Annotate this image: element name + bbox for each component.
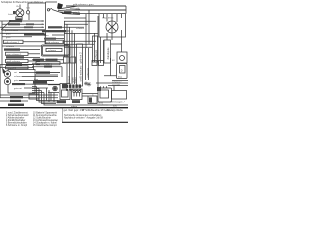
label blau bar	[12, 83, 25, 85]
star symbol 2	[84, 82, 88, 86]
title block rule right	[62, 121, 128, 123]
pilot lamp	[26, 11, 29, 14]
svg-text:Nachdruck verboten · Ausgabe J: Nachdruck verboten · Ausgabe Juli 58	[64, 117, 104, 120]
lamp socket box	[16, 17, 22, 20]
label schwarz mid 2	[24, 26, 33, 28]
connector blob blau	[62, 84, 67, 88]
terminal eyelets	[66, 89, 68, 91]
wire	[66, 5, 126, 7]
wire diagonal	[1, 21, 11, 31]
bulbs in cluster	[73, 90, 75, 92]
wire	[32, 59, 64, 61]
left bus vertical	[1, 21, 3, 67]
label schwarz-weiss bar	[6, 56, 24, 58]
coil box B	[104, 40, 111, 63]
wire	[25, 83, 48, 85]
wire	[32, 62, 66, 64]
svg-text:grün-schwarz: grün-schwarz	[5, 29, 18, 32]
wire lamp to bus	[18, 16, 21, 21]
svg-text:schwarz: schwarz	[48, 49, 56, 52]
wire	[19, 71, 60, 73]
label weiss bar	[57, 100, 66, 103]
wire	[32, 81, 60, 85]
wire	[22, 75, 58, 77]
legend column 1	[6, 112, 29, 128]
rectifier D inner	[120, 66, 126, 74]
label gelb-schwarz bar	[46, 59, 58, 61]
star symbol	[87, 82, 91, 86]
crossing bus wires	[64, 33, 98, 47]
svg-text:rot: rot	[14, 71, 17, 74]
svg-text:Schaltplan für Beleuchtung am: Schaltplan für Beleuchtung am Rahmen	[1, 1, 44, 4]
svg-text:Licht: Licht	[8, 13, 13, 16]
svg-text:grau: grau	[6, 32, 11, 35]
wire fan to headlamp labels	[58, 6, 80, 15]
legend column 2	[33, 112, 58, 128]
label braun	[8, 63, 20, 65]
wire	[0, 65, 34, 70]
wire	[2, 29, 44, 31]
box4 top pins	[101, 86, 115, 91]
right verticals	[95, 16, 104, 88]
label rot	[44, 66, 52, 68]
label schwarz	[48, 26, 62, 28]
svg-text:schwarz /: schwarz /	[112, 81, 122, 84]
wire	[2, 45, 40, 47]
wire	[0, 26, 44, 28]
vertical drops from headlamp labels	[86, 10, 89, 48]
terminal box T1	[64, 57, 70, 63]
label blau bar 1	[10, 96, 23, 98]
svg-text:2↑: 2↑	[92, 94, 94, 97]
headlamp housing	[99, 14, 126, 37]
horn mount eyelet	[47, 9, 49, 11]
boxed label weiss-schwarz	[6, 59, 29, 62]
flywheel wedge	[2, 68, 7, 74]
svg-text:D: D	[121, 70, 123, 73]
switch symbol in C	[120, 56, 125, 61]
wire below headlamp	[107, 33, 112, 40]
boxed label weiss-schwarz 1	[36, 62, 60, 65]
wire	[2, 36, 32, 38]
svg-text:weiß-schwarz 1: weiß-schwarz 1	[37, 62, 53, 65]
wire	[0, 97, 58, 99]
wire	[82, 94, 98, 97]
tail lamp L1	[16, 5, 24, 17]
label schwarz 2	[8, 23, 20, 25]
upper bus wires	[64, 18, 96, 27]
svg-text:blau: blau	[75, 77, 78, 82]
wire	[35, 72, 60, 75]
sidecar box	[112, 91, 127, 100]
title block separator	[62, 108, 64, 123]
terminal box T4	[99, 61, 104, 66]
label schwarz	[9, 20, 22, 22]
headlamp bulb	[106, 21, 118, 33]
svg-text:gelb-rot 3: gelb-rot 3	[80, 52, 83, 64]
boxed label rot-weiss	[6, 66, 29, 69]
svg-text:schwarz: schwarz	[14, 75, 22, 78]
wire	[23, 41, 45, 43]
svg-text:rot-weiß: rot-weiß	[112, 83, 121, 86]
wire bus right	[96, 81, 128, 86]
vertical strip box A	[93, 36, 98, 62]
wire	[19, 79, 52, 81]
svg-text:grün-rot: grün-rot	[14, 87, 22, 90]
title block texts	[64, 109, 124, 119]
horn bracket	[49, 9, 64, 14]
label gelb-schwarz wide	[42, 30, 66, 32]
switch S1	[13, 11, 16, 14]
battery box	[60, 84, 70, 100]
svg-text:weiß-schwarz: weiß-schwarz	[7, 60, 20, 63]
svg-text:Zündspule: Zündspule	[107, 47, 110, 60]
relay label schwarz	[46, 48, 62, 51]
label gelb-schwarz bar	[4, 48, 20, 50]
connector blobs	[66, 85, 68, 88]
wire	[48, 85, 60, 102]
label schwarz mid 1	[26, 23, 34, 25]
wire	[2, 23, 44, 25]
arrowheads into junction	[42, 20, 44, 31]
label gruen bar	[64, 11, 72, 14]
boxed label gruen-schwarz	[6, 52, 29, 55]
regulator box4	[98, 88, 112, 102]
svg-text:Zündapp-Werke: Zündapp-Werke	[107, 109, 124, 112]
label blau bar 2	[10, 100, 21, 102]
svg-text:grün-schwarz 1: grün-schwarz 1	[7, 53, 23, 56]
label schnarre bar	[8, 104, 24, 106]
svg-text:6 Schnarre m. Knopf: 6 Schnarre m. Knopf	[6, 124, 27, 127]
label bar mid	[33, 81, 47, 84]
label gelb-schwarz bar	[24, 33, 46, 35]
wire	[73, 13, 100, 15]
wire from pilot lamp	[28, 3, 46, 11]
bulb symbol (asterisk lamp)	[53, 86, 58, 91]
terminal box T3	[92, 61, 97, 66]
svg-text:15 Unterbrecher kompl.: 15 Unterbrecher kompl.	[33, 124, 57, 127]
wire	[32, 67, 62, 77]
wire	[0, 20, 44, 22]
wire	[111, 30, 122, 52]
wire	[0, 94, 58, 96]
svg-text:grün: grün	[14, 79, 19, 82]
bottom rule full width	[0, 107, 128, 109]
wire	[0, 100, 28, 102]
junction box left edge	[45, 2, 47, 44]
left margin line	[0, 65, 2, 98]
boxed label at bottom left	[29, 94, 39, 99]
junction box top edge	[46, 1, 58, 3]
svg-text:schwarz: schwarz	[6, 45, 14, 48]
label rot bar	[33, 59, 44, 61]
svg-text:Technische Änderungen vorbehal: Technische Änderungen vorbehalten	[64, 114, 102, 117]
svg-text:gelb-schwarz 1: gelb-schwarz 1	[5, 41, 20, 44]
wire rows to box	[40, 27, 70, 46]
label bar	[6, 63, 22, 65]
wire	[24, 56, 40, 58]
wire	[66, 9, 126, 11]
wire	[0, 32, 44, 34]
svg-text:schwarz: schwarz	[87, 67, 90, 77]
rectifier D box	[117, 64, 128, 79]
horn	[57, 3, 63, 9]
svg-text:grün: grün	[6, 36, 11, 39]
svg-text:weiß-schwarz: weiß-schwarz	[80, 65, 83, 82]
sheath vertical line pair	[86, 48, 89, 80]
relay box	[42, 45, 71, 56]
connector blob 5	[79, 85, 81, 88]
wire to D	[104, 58, 117, 76]
terminal box T2	[70, 57, 76, 63]
generator box	[8, 70, 35, 94]
boxed label gelb-schwarz 1	[4, 40, 24, 43]
boxed label gelb-schwarz	[45, 40, 64, 43]
magneto rotor 2	[4, 78, 10, 84]
wire	[2, 32, 32, 34]
wire	[28, 60, 40, 62]
nested corner wires to bottom bus	[32, 87, 128, 106]
svg-text:grau: grau	[44, 34, 49, 37]
svg-text:gelb-schwarz u. grau: gelb-schwarz u. grau	[73, 3, 94, 6]
svg-text:rot-schwarz: rot-schwarz	[97, 104, 108, 107]
vertical bundle wires	[65, 21, 75, 84]
label gruen	[44, 38, 56, 40]
wire	[2, 29, 45, 31]
wire stub pilot	[28, 14, 30, 20]
headlamp inner side lines	[104, 6, 127, 18]
connector blob	[97, 87, 101, 91]
svg-text:gelb-schwarz: gelb-schwarz	[46, 41, 59, 44]
switch box C	[117, 52, 127, 63]
label grau	[36, 71, 50, 73]
svg-text:Seitenwagen ↗: Seitenwagen ↗	[110, 101, 125, 104]
svg-text:schwarz: schwarz	[95, 49, 98, 59]
wire	[24, 87, 48, 89]
fuse box3	[88, 96, 97, 104]
headlamp drop wires	[107, 14, 117, 22]
lamp cluster box	[72, 89, 83, 100]
harness sheath box	[77, 44, 83, 86]
wire	[22, 63, 40, 65]
wire	[28, 53, 40, 55]
label gruen bar	[72, 100, 80, 103]
wire	[20, 49, 40, 51]
magneto rotor 1	[4, 71, 10, 77]
lamp socket fill	[16, 18, 21, 20]
